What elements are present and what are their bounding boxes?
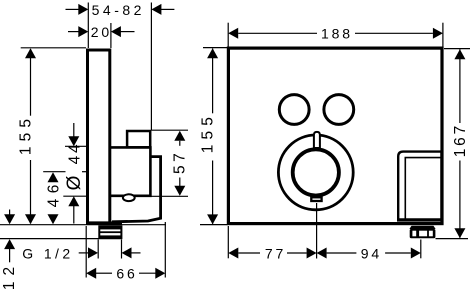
shower holder bottom thick edge <box>398 218 441 221</box>
dimension 188 extension line right <box>442 23 444 48</box>
dimension 155 (front) extension line bottom <box>200 224 228 226</box>
dimension 155 (front) arrow up <box>207 48 218 58</box>
dimension 66 extension line left <box>85 226 87 278</box>
dimension 77 arrow left <box>228 248 238 259</box>
valve body (side view) <box>111 147 150 195</box>
oval button on body <box>123 194 135 201</box>
dimension 155 (side) arrow down <box>25 214 36 224</box>
thermostat knob outer ring <box>278 135 353 210</box>
step housing on top of valve body <box>127 131 150 147</box>
dimension 77 line segments <box>238 252 260 254</box>
G 1/2 arrow left <box>131 252 140 254</box>
svg-text:44: 44 <box>67 142 84 165</box>
G 1/2 spigot extension line right <box>121 240 123 259</box>
thermostat knob inner ring <box>293 149 339 195</box>
svg-text:57: 57 <box>171 150 188 174</box>
shower holder inner vertical line <box>404 158 406 220</box>
knob bottom tab <box>311 197 321 201</box>
dimension D44 arrow top <box>73 123 75 137</box>
select button left <box>279 95 309 125</box>
dimension 66 line segments <box>96 272 112 274</box>
dimension 77 arrow right <box>307 248 317 259</box>
handle housing (side view) <box>112 157 161 222</box>
dimension 155 (side) extension line top <box>21 47 86 49</box>
dimension 20 extension line right <box>110 23 112 48</box>
dimension 12 arrow up (bottom) <box>9 249 11 262</box>
G1/2 threaded spigot <box>98 225 122 238</box>
dimension D44 extension line bottom <box>63 195 86 197</box>
svg-text:77: 77 <box>265 246 286 262</box>
dimension 66 arrow right <box>155 268 165 279</box>
G 1/2 arrow right <box>79 252 89 254</box>
dimension 54-82 extension line left <box>87 3 89 49</box>
dimension 46 arrow down <box>48 214 59 224</box>
dimension 66 extension line right <box>164 222 166 278</box>
G 1/2 spigot extension line left <box>97 240 99 259</box>
knob top index tab <box>314 132 320 148</box>
dimension 167 line lower <box>459 161 461 238</box>
svg-text:G 1/2: G 1/2 <box>22 245 73 261</box>
svg-text:188: 188 <box>321 26 353 42</box>
holder nut facets <box>412 231 416 237</box>
dimension 155 (side) arrow up <box>25 48 36 58</box>
dimension 155 (front) extension line top <box>203 47 227 49</box>
dimension 188 line segments <box>238 32 317 34</box>
front plate <box>228 48 442 224</box>
dimension 57 extension line bottom <box>151 195 188 197</box>
dimension 167 extension line top <box>444 48 470 50</box>
svg-text:66: 66 <box>116 265 137 281</box>
wire: wall surface line <box>0 224 166 226</box>
dimension 155 (side) line upper <box>30 49 32 116</box>
dimension 155 (side) line lower <box>30 160 32 224</box>
svg-text:20: 20 <box>91 24 112 40</box>
dimension 46 arrow up <box>48 172 59 182</box>
dimension 155 (front) arrow down <box>207 214 218 224</box>
dimension 188 arrow right <box>433 28 443 39</box>
svg-text:167: 167 <box>452 123 469 157</box>
dimension 167 arrow down <box>454 228 465 238</box>
wall plate (side view) <box>88 50 110 223</box>
dimension 46 extension line (two segments) <box>43 171 65 173</box>
dimension 66 arrow left <box>86 268 96 279</box>
select button right <box>324 95 354 125</box>
dimension 188 arrow left <box>228 28 238 39</box>
svg-text:12: 12 <box>1 261 18 290</box>
dimension 155 (front) line lower <box>212 161 214 224</box>
dimension 12 arrow down (top) <box>9 210 11 215</box>
dimension 94 line segments <box>327 252 357 254</box>
dimension 54-82 arrow left <box>66 8 80 10</box>
dimension 167 extension line bottom <box>436 238 469 240</box>
dimension 188 extension line left <box>227 23 229 48</box>
svg-text:Ø: Ø <box>64 175 85 190</box>
dimension 57 extension line top <box>152 129 189 131</box>
dimension 167 arrow up <box>454 49 465 59</box>
dimension 20 arrow right <box>121 31 135 33</box>
dimension 57 arrow up <box>179 141 181 146</box>
shower holder body <box>398 152 441 221</box>
dimension 20 arrow left <box>68 31 79 33</box>
dimension 155 (front) line upper <box>212 49 214 114</box>
svg-text:46: 46 <box>45 179 62 207</box>
shower holder inner horizontal line <box>405 157 442 159</box>
dimension 94 arrow right <box>411 248 421 259</box>
dimension 167 line upper <box>459 49 461 123</box>
dimension 54-82 arrow right <box>161 8 174 10</box>
dimension 77 extension line left <box>227 226 229 258</box>
dimension 57 arrow down <box>179 178 181 187</box>
wire: tile thickness line (12) <box>0 238 122 240</box>
knob centre extension line <box>316 203 318 259</box>
svg-text:155: 155 <box>200 112 217 153</box>
dimension D44 extension line top <box>65 145 86 147</box>
holder nut chamfer <box>409 226 435 229</box>
dimension 54-82 extension line right <box>150 3 152 131</box>
svg-text:155: 155 <box>17 114 34 155</box>
dimension D44 arrow bottom <box>73 206 75 224</box>
holder nut body <box>410 229 436 238</box>
svg-text:94: 94 <box>361 246 382 262</box>
svg-text:54-82: 54-82 <box>92 2 145 18</box>
dimension 94 arrow left <box>317 248 327 259</box>
plate bottom thick edge <box>86 221 122 225</box>
dimension 94 extension line right <box>420 240 422 259</box>
